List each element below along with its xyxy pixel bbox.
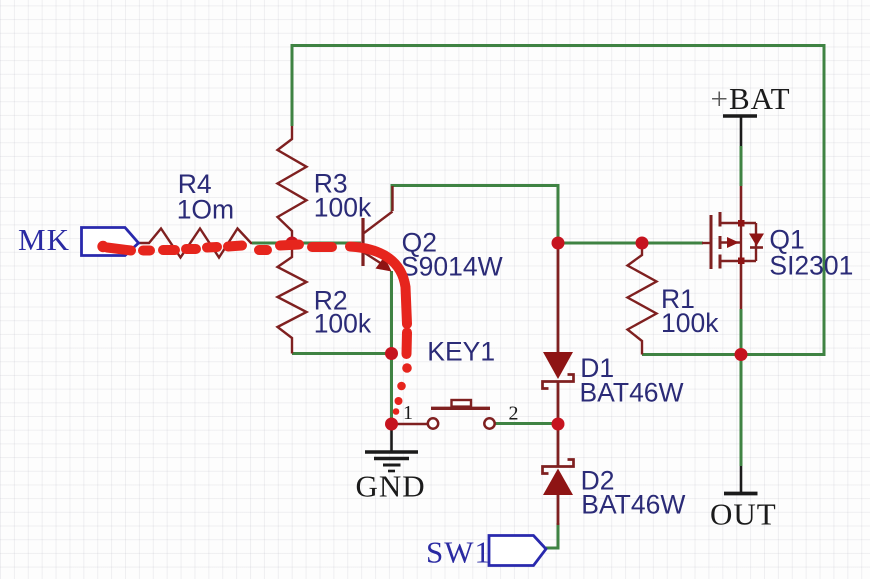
svg-text:OUT: OUT xyxy=(710,497,777,532)
svg-text:S9014W: S9014W xyxy=(401,251,503,281)
svg-text:BAT46W: BAT46W xyxy=(580,377,684,407)
svg-text:BAT46W: BAT46W xyxy=(581,490,685,520)
svg-text:2: 2 xyxy=(509,403,520,425)
svg-text:100k: 100k xyxy=(314,309,372,339)
svg-text:1Om: 1Om xyxy=(177,194,234,224)
svg-text:GND: GND xyxy=(356,469,426,504)
svg-text:MK: MK xyxy=(18,222,70,257)
svg-text:KEY1: KEY1 xyxy=(427,337,495,367)
svg-text:100k: 100k xyxy=(661,308,719,338)
svg-text:100k: 100k xyxy=(314,193,372,223)
svg-text:SW1: SW1 xyxy=(426,535,491,570)
svg-text:1: 1 xyxy=(403,402,414,424)
svg-text:+BAT: +BAT xyxy=(711,81,791,116)
svg-text:SI2301: SI2301 xyxy=(769,251,853,281)
